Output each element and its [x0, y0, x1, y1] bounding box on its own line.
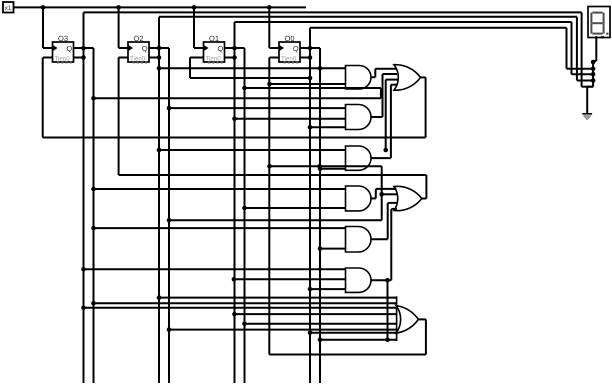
node clk Q0 junction	[267, 5, 272, 10]
wire OR3 input bus 4	[232, 312, 397, 317]
node Q2 Q junction	[157, 46, 162, 51]
node Q3 Q junction	[81, 46, 86, 51]
node clk Q1 junction	[192, 5, 197, 10]
wire bus y98	[91, 86, 381, 101]
wire OR1 in3 riser	[383, 80, 397, 153]
wire AND1 input B bus	[267, 82, 345, 87]
svg-text:Q2: Q2	[134, 34, 144, 43]
wire clock bus from x1	[14, 6, 307, 8]
wire Q3 rail to top bus and down	[83, 12, 85, 383]
wire Q1 Q output	[225, 47, 245, 49]
flip-flop Q0 (Tien0 subcircuit)	[279, 34, 300, 63]
wire Q0 to Q1 T bus	[190, 58, 312, 81]
node clk Q2 junction	[116, 5, 121, 10]
wire Q2 bottom-right pin stub	[149, 57, 159, 59]
wire Q2 Q rail down	[168, 48, 170, 383]
and-gate AND3	[346, 146, 372, 170]
wire AND6 out riser to OR2 in4 and OR3	[371, 209, 397, 342]
wire OR3 input bus 7	[308, 330, 398, 335]
node Q2 bottom pin junction	[157, 55, 162, 60]
wire clk drop Q1	[194, 7, 204, 48]
wire AND5 out to OR2 in3	[371, 203, 398, 239]
or-gate OR1	[394, 65, 421, 91]
7-segment display U1	[588, 7, 610, 39]
wire OR3 input bus 6	[167, 327, 398, 332]
svg-text:Q0: Q0	[285, 34, 295, 43]
wire Q3 bottom-left pin stub	[43, 57, 53, 59]
wire OR3 input bus 8	[318, 338, 398, 343]
wire AND2 center input bus	[232, 116, 345, 121]
wire OR2 feedback to Q2 T	[119, 58, 427, 199]
wire display common chain	[587, 38, 596, 112]
svg-text:Q3: Q3	[58, 34, 68, 43]
node Q3 bottom pin junction	[81, 55, 86, 60]
and-gate AND1	[346, 66, 371, 90]
wire OR3 input bus 1	[157, 295, 398, 300]
svg-text:Q: Q	[218, 44, 224, 53]
wire AND4 input B bus	[242, 206, 345, 211]
input pin x1	[3, 2, 14, 13]
or-gate OR3	[396, 296, 418, 341]
wire clk drop Q3	[43, 7, 53, 48]
wire Q3 Q output	[74, 47, 94, 49]
or-gate OR2	[394, 186, 422, 210]
wire clk drop Q2	[119, 7, 128, 48]
svg-text:Q: Q	[142, 44, 148, 53]
svg-text:Q: Q	[67, 44, 73, 53]
ground	[582, 112, 592, 120]
wire AND1 input A bus	[157, 66, 346, 71]
wire AND4 input A bus	[91, 187, 345, 192]
wire Q0 Q rail down	[319, 48, 321, 383]
svg-text:Q: Q	[293, 44, 299, 53]
wire Q0 top bus to display	[310, 28, 593, 69]
wire clk drop Q0	[269, 7, 279, 48]
wire bus y166	[267, 164, 382, 169]
wire OR2 riser bus y219	[167, 218, 382, 223]
wire AND1 out to OR1 in1	[371, 69, 397, 78]
flip-flop Q1 (Tien0 subcircuit)	[204, 34, 225, 63]
node Q1 Q junction	[232, 46, 237, 51]
wire Q0 bottom-right pin stub	[300, 57, 310, 59]
wire Q2 rail to top bus and down	[158, 17, 160, 383]
wire Q2 top bus to display	[159, 17, 593, 81]
wire AND2 input A bus	[167, 106, 346, 111]
wire AND5 input B bus	[318, 246, 346, 251]
wire AND3 out to OR1 in4	[371, 85, 398, 158]
wire OR3 input bus 5	[242, 321, 397, 326]
wire OR3 feedback to Q0 T	[269, 58, 426, 355]
wire OR1 feedback to Q3 T	[43, 58, 426, 138]
wire Q1 rail to top bus and down	[234, 22, 236, 383]
svg-text:Q1: Q1	[209, 34, 219, 43]
wire bus166 riser to OR2 in1 and AND4 out	[371, 189, 397, 199]
node display feed Q1	[591, 78, 596, 83]
wire AND2 out to OR1 in2	[371, 74, 397, 117]
wire Q2 Q output	[149, 47, 169, 49]
node Q0 bottom pin junction	[308, 55, 313, 60]
node Q1 bottom pin junction	[232, 55, 237, 60]
wire Q0 Q output	[300, 47, 320, 49]
node display feed Q2	[591, 72, 596, 77]
wire AND3 input B bus	[318, 166, 346, 171]
flip-flop Q3 (Tien0 subcircuit)	[53, 34, 74, 63]
wire AND3 input A bus	[157, 148, 346, 153]
svg-text:x1: x1	[5, 5, 12, 12]
wire Q3 top bus to display	[84, 12, 594, 86]
wire AND6 input A bus	[81, 267, 345, 272]
and-gate AND5	[346, 227, 372, 253]
wire AND6 center input bus	[232, 277, 346, 282]
wire AND5 input A bus	[91, 226, 345, 231]
node display chain junction	[591, 60, 596, 65]
wire Q0 rail to top bus and down	[309, 28, 311, 383]
wire AND2 input B bus	[308, 125, 346, 130]
wire OR2 in2 riser	[379, 166, 397, 220]
wire OR3 input bus 3	[81, 306, 397, 311]
and-gate AND4	[346, 186, 372, 211]
wire Q3 Q rail down	[93, 48, 95, 383]
and-gate AND2	[346, 105, 372, 130]
node clk Q3 junction	[41, 5, 46, 10]
node Q0 Q junction	[308, 46, 313, 51]
wire Q1 bottom-left pin stub	[190, 57, 204, 59]
wire Q2 bottom-left pin stub	[119, 57, 129, 59]
wire Q1 top bus to display	[235, 22, 594, 74]
wire OR3 input bus 2	[91, 301, 397, 306]
and-gate AND6	[346, 268, 371, 292]
wire AND6 input B bus	[308, 287, 346, 292]
wire Q0 bottom-left pin stub	[270, 57, 280, 59]
node display feed Q3	[591, 66, 596, 71]
wire Q1 Q rail down	[244, 48, 246, 383]
wire Q1 bottom-right pin stub	[225, 57, 235, 59]
wire Q3 bottom-right pin stub	[74, 57, 84, 59]
flip-flop Q2 (Tien0 subcircuit)	[128, 34, 149, 63]
